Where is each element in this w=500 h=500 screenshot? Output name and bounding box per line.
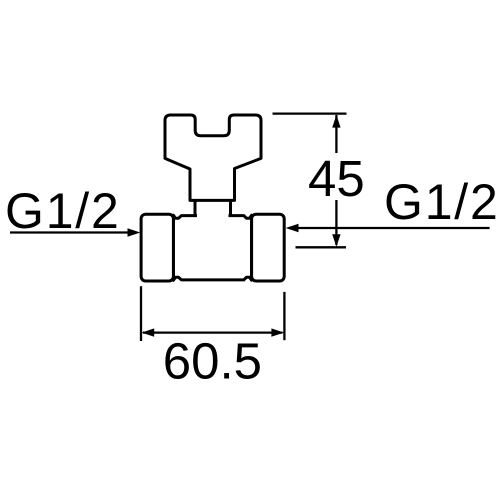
wing handle with stem — [165, 115, 261, 200]
svg-text:G1/2: G1/2 — [5, 183, 121, 239]
left G1/2 arrow wire — [10, 231, 129, 233]
arrowhead down at centerline — [332, 234, 340, 247]
neck right wire — [229, 200, 232, 216]
60.5 left arrowhead — [142, 328, 155, 336]
right G1/2 arrow wire — [297, 227, 490, 229]
svg-text:G1/2: G1/2 — [384, 174, 500, 230]
dimension line 45 vertical lower segment — [335, 200, 337, 245]
60.5 right extension line — [283, 292, 285, 340]
arrowhead up at top line — [332, 115, 340, 128]
left nut (end cap) — [141, 214, 173, 281]
left G1/2 arrowhead — [128, 228, 141, 236]
svg-text:60.5: 60.5 — [163, 333, 262, 390]
dimension line 45 vertical upper segment — [335, 115, 337, 153]
right G1/2 arrowhead — [286, 224, 299, 232]
neck left wire — [194, 200, 197, 216]
60.5 dimension line — [143, 331, 283, 333]
valve central body — [173, 215, 251, 280]
60.5 left extension line — [140, 286, 142, 341]
60.5 right arrowhead — [271, 328, 284, 336]
top extension line from handle — [273, 112, 347, 114]
neck opening eraser — [197, 214, 229, 219]
svg-text:45: 45 — [308, 150, 365, 207]
right nut (end cap) — [252, 214, 285, 281]
centerline reference (bottom of 45 dim) — [296, 246, 347, 248]
